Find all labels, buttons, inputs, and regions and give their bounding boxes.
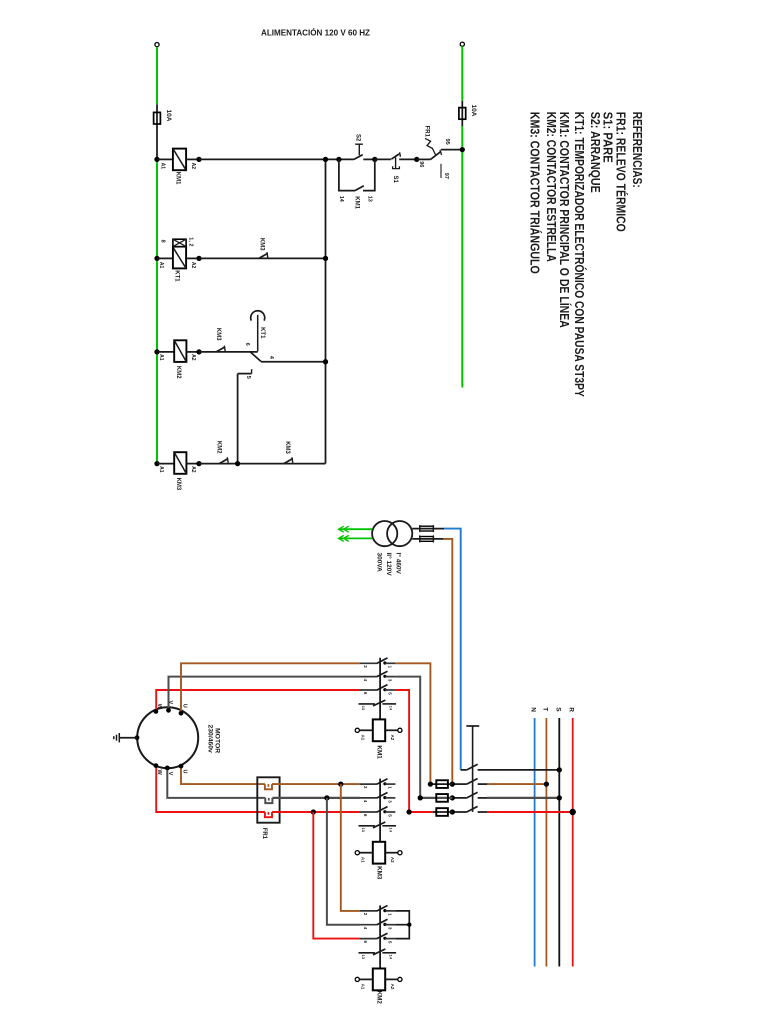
wire KM1 out brown drop xyxy=(395,663,430,784)
wire motor U top (brown) xyxy=(181,663,360,713)
line R (red) xyxy=(572,718,574,967)
contact KM2 pole 2 xyxy=(360,924,377,926)
wire motor W bottom (red) xyxy=(156,766,265,813)
wire blue primary feed xyxy=(444,529,461,770)
svg-text:MOTOR: MOTOR xyxy=(213,728,220,753)
svg-text:KT1: KT1 xyxy=(259,327,265,339)
svg-text:KM3: CONTACTOR TRIÁNGULO: KM3: CONTACTOR TRIÁNGULO xyxy=(527,112,542,274)
contact KM3 aux 13-14 xyxy=(359,825,375,827)
svg-text:KM2: KM2 xyxy=(175,366,181,379)
wire right rail upper (green) xyxy=(461,46,463,100)
svg-text:KM1: KM1 xyxy=(353,196,359,209)
svg-text:1, 2: 1, 2 xyxy=(187,237,193,246)
wire KM3 row xyxy=(199,463,326,465)
node left rail KM2 row xyxy=(154,349,159,354)
svg-text:8: 8 xyxy=(160,240,166,243)
svg-text:FR1: FR1 xyxy=(423,126,429,138)
wire secondary arrow lower (green) xyxy=(340,537,372,539)
relay FR1 heater box xyxy=(257,777,279,822)
node ladder rail KT1 row xyxy=(323,256,328,261)
pushbutton S2 (NO) xyxy=(354,155,363,160)
node motor U bottom xyxy=(179,764,184,769)
contact KM1 13-14 seal-in branch xyxy=(339,159,355,190)
coil KM3 (control) xyxy=(157,463,174,465)
svg-text:300VA: 300VA xyxy=(376,553,383,573)
contact KT1 terminal 5 stub xyxy=(238,373,252,375)
svg-text:R: R xyxy=(568,707,575,712)
node KM2 A2 xyxy=(196,349,201,354)
svg-text:A2: A2 xyxy=(390,857,395,863)
node R drop xyxy=(406,809,411,814)
svg-text:II° 120V: II° 120V xyxy=(385,553,393,577)
wire left rail main (green) xyxy=(156,159,158,464)
svg-text:KM3: KM3 xyxy=(375,866,382,880)
svg-text:14: 14 xyxy=(389,955,394,960)
contact KM2 NC in KM3 row xyxy=(219,459,228,464)
node S pole1 xyxy=(557,767,562,772)
fuse F3 power row 1 xyxy=(436,780,448,788)
link KM2 mechanism xyxy=(379,905,381,968)
wire KM2 row xyxy=(199,351,258,353)
node KT1 A2 xyxy=(196,256,201,261)
node S drop xyxy=(418,795,423,800)
contact KM3 NC in KT1 row xyxy=(259,253,268,258)
svg-text:5: 5 xyxy=(245,376,251,379)
contact KM2 pole 3 xyxy=(360,938,377,940)
svg-text:V: V xyxy=(167,772,173,776)
svg-text:V: V xyxy=(167,701,173,705)
fuse primary upper xyxy=(412,528,445,530)
svg-text:KM1: KM1 xyxy=(375,745,382,759)
svg-text:A2: A2 xyxy=(390,984,395,990)
svg-text:A2: A2 xyxy=(190,466,196,473)
wire KM2 star bridge xyxy=(395,911,409,939)
terminal left rail top xyxy=(155,43,159,47)
wire motor U bottom (brown) xyxy=(181,766,265,784)
contact KM3 pole 3 xyxy=(360,811,377,813)
contact KT1 timed changeover xyxy=(257,315,259,352)
wire motor V top (gray) xyxy=(169,677,361,711)
coil KM1 (power) xyxy=(373,719,385,741)
wire KM1 row to S2 xyxy=(199,158,354,160)
line T (brown) xyxy=(545,718,547,967)
wire motor V bottom (gray) xyxy=(167,768,265,798)
node KT1-5 junction xyxy=(235,461,240,466)
svg-text:A1: A1 xyxy=(159,163,165,170)
fuse primary lower xyxy=(412,538,444,540)
coil KM2 (power) xyxy=(373,969,385,991)
svg-text:A2: A2 xyxy=(390,735,395,741)
coil KM1 (control) xyxy=(157,158,173,160)
node S2 right xyxy=(372,157,377,162)
line N (blue) xyxy=(534,718,536,967)
wire KM2 drop brown xyxy=(341,784,360,911)
svg-text:A1: A1 xyxy=(158,262,164,269)
svg-text:FR1: FR1 xyxy=(261,828,267,840)
wire left rail upper (green) xyxy=(156,47,158,105)
svg-text:A1: A1 xyxy=(158,466,164,473)
wire fuse row S xyxy=(420,797,452,799)
node KM3 A2 xyxy=(196,461,201,466)
svg-text:A1: A1 xyxy=(158,354,164,361)
svg-text:N: N xyxy=(530,707,537,712)
svg-text:W: W xyxy=(156,704,162,710)
node motor V top xyxy=(166,708,171,713)
node motor V bottom xyxy=(165,766,170,771)
svg-text:U: U xyxy=(182,704,188,708)
wire KM2 drop gray xyxy=(327,798,360,925)
contact KM1 pole 2 xyxy=(360,676,377,678)
node fuse out S xyxy=(450,795,455,800)
svg-text:14: 14 xyxy=(389,828,394,833)
svg-text:W: W xyxy=(156,770,162,776)
svg-text:10A: 10A xyxy=(165,110,172,122)
svg-text:10A: 10A xyxy=(470,105,477,117)
node KM2 drop T xyxy=(338,781,343,786)
node KM2 bridge xyxy=(407,923,411,927)
svg-text:KM3: KM3 xyxy=(284,441,290,454)
node fuse out R xyxy=(450,809,455,814)
svg-text:KM2: CONTACTOR ESTRELLA: KM2: CONTACTOR ESTRELLA xyxy=(544,112,559,262)
svg-text:6: 6 xyxy=(244,343,250,346)
svg-text:S1: S1 xyxy=(392,176,398,184)
wire ladder right rail xyxy=(325,159,327,463)
wire motor W top (red) xyxy=(156,690,360,711)
svg-text:ALIMENTACIÓN 120 V 60 HZ: ALIMENTACIÓN 120 V 60 HZ xyxy=(261,27,370,38)
svg-text:13: 13 xyxy=(361,955,366,960)
node motor W top xyxy=(154,709,159,714)
node ladder rail top xyxy=(323,157,328,162)
fuse F1 10A left rail xyxy=(156,104,158,159)
wire KM2 bridge middle xyxy=(395,924,409,926)
svg-text:KM3: KM3 xyxy=(175,478,181,491)
wire R after FR1 (red) xyxy=(272,811,360,813)
svg-text:230/460v: 230/460v xyxy=(206,725,213,754)
link KM1 mechanism xyxy=(379,658,381,720)
node fuse out T xyxy=(450,781,455,786)
switch Q1 pole 3 (S phase) xyxy=(452,797,467,799)
wire brown primary feed xyxy=(443,539,452,784)
fuse F5 power row 3 xyxy=(436,808,448,816)
contact KM3 NC in KM2 row xyxy=(216,347,225,352)
contact KM1 pole 3 xyxy=(360,689,377,691)
wire KM1 out gray drop xyxy=(395,677,420,798)
svg-text:13: 13 xyxy=(361,828,366,833)
terminal right rail top xyxy=(460,42,464,46)
wire KT1 contact 4 to rail xyxy=(261,361,326,363)
svg-text:S2: S2 xyxy=(355,134,361,142)
coil KM2 (control) xyxy=(157,351,174,353)
wire T after FR1 (brown) xyxy=(272,783,360,785)
svg-text:KM2: KM2 xyxy=(375,991,382,1005)
transformer T1 primary circle xyxy=(372,521,397,546)
heater element T row xyxy=(265,784,272,789)
node KM2 drop R xyxy=(311,809,316,814)
coil KT1 timer (control) xyxy=(157,257,173,259)
node FR1 96 xyxy=(414,157,419,162)
wire KM1 out red drop xyxy=(395,690,409,812)
contact FR1 95-96 (NC thermal) xyxy=(417,158,431,160)
svg-text:14: 14 xyxy=(389,706,394,711)
svg-text:14: 14 xyxy=(338,196,344,203)
svg-text:A2: A2 xyxy=(190,262,196,269)
svg-text:A1: A1 xyxy=(360,735,365,741)
node right rail FR1 xyxy=(460,147,465,152)
switch Q1 pole 4 (R phase) xyxy=(452,811,467,813)
node R pole4 xyxy=(570,809,576,815)
svg-text:T: T xyxy=(542,707,549,711)
node T pole2 xyxy=(544,781,549,786)
heater element R row xyxy=(265,812,272,817)
svg-text:A2: A2 xyxy=(190,163,196,170)
wire S after FR1 (gray) xyxy=(272,797,360,799)
pushbutton S1 (NC) xyxy=(375,158,391,160)
wire fuse row R xyxy=(409,811,433,813)
node left rail KT1 row xyxy=(154,256,159,261)
svg-text:KM3: KM3 xyxy=(259,238,265,251)
contact KM3 pole 1 xyxy=(360,783,377,785)
svg-text:13: 13 xyxy=(367,196,373,202)
contact KM3 pole 2 xyxy=(360,797,377,799)
wire fuse row T xyxy=(430,783,452,785)
svg-text:KT1: TEMPORIZADOR ELECTRÓNICO: KT1: TEMPORIZADOR ELECTRÓNICO CON PAUSA … xyxy=(572,112,587,397)
heater element S row xyxy=(265,798,272,803)
svg-text:KM1: KM1 xyxy=(175,172,181,185)
node T drop xyxy=(428,781,433,786)
contact KM3 NC in KM3 row xyxy=(284,459,293,464)
wire KM2 drop red xyxy=(313,812,360,939)
svg-text:KM2: KM2 xyxy=(216,441,222,454)
switch Q1 pole 2 (T phase) xyxy=(452,783,467,785)
node S pole3 xyxy=(557,795,562,800)
svg-text:A1: A1 xyxy=(360,857,365,863)
svg-text:95: 95 xyxy=(444,139,450,145)
svg-text:96: 96 xyxy=(418,161,424,167)
fuse F4 power row 2 xyxy=(436,794,448,802)
svg-text:97: 97 xyxy=(443,173,449,179)
svg-text:A1: A1 xyxy=(360,984,365,990)
wire secondary arrow upper (green) xyxy=(340,528,372,530)
node KM1 A2 xyxy=(196,157,201,162)
coil KM3 (power) xyxy=(373,842,385,864)
terminal 97 stub xyxy=(440,164,442,178)
motor M1 circle xyxy=(137,707,198,768)
svg-text:13: 13 xyxy=(361,706,366,711)
link KM3 mechanism xyxy=(379,779,381,842)
svg-text:I° 460V: I° 460V xyxy=(395,553,403,575)
switch Q1 handle xyxy=(466,725,479,727)
node left rail KM1 row xyxy=(154,157,159,162)
node ladder rail KT1 contact xyxy=(323,359,328,364)
node S2 branch left xyxy=(336,157,341,162)
wire KT1-5 down to KM3 row xyxy=(237,374,239,464)
contact KM2 pole 1 xyxy=(360,910,377,912)
wire KT1 row xyxy=(199,257,326,259)
ground symbol xyxy=(135,735,140,740)
node KM2 drop S xyxy=(324,795,329,800)
transformer T1 secondary circle xyxy=(387,521,412,546)
svg-text:KT1: KT1 xyxy=(174,270,180,282)
contact KM1 aux 13-14 xyxy=(359,703,375,705)
fuse F2 10A right rail xyxy=(461,101,463,127)
svg-text:S2: ARRANQUE: S2: ARRANQUE xyxy=(588,112,603,193)
contact KM1 pole 1 xyxy=(360,662,377,664)
svg-text:U: U xyxy=(182,770,188,774)
svg-text:KM3: KM3 xyxy=(215,328,221,341)
contact KM2 aux 13-14 xyxy=(359,952,375,954)
node left rail KM3 row xyxy=(154,461,159,466)
node motor W bottom xyxy=(154,763,159,768)
svg-text:S: S xyxy=(554,707,561,712)
node motor U top xyxy=(179,711,184,716)
wire right rail main (green) xyxy=(461,126,463,387)
switch Q1 pole 1 (transformer to S) xyxy=(461,769,467,771)
line S (black) xyxy=(558,718,560,967)
svg-text:A2: A2 xyxy=(190,354,196,361)
svg-text:REFERENCIAS:: REFERENCIAS: xyxy=(630,112,645,188)
